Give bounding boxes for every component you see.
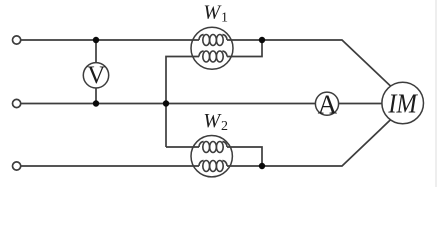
svg-text:W: W (203, 110, 222, 132)
svg-text:W: W (203, 2, 222, 24)
svg-text:A: A (318, 89, 338, 119)
svg-text:2: 2 (221, 119, 228, 134)
svg-text:V: V (87, 62, 105, 89)
svg-text:1: 1 (221, 10, 228, 25)
svg-text:IM: IM (387, 88, 418, 118)
